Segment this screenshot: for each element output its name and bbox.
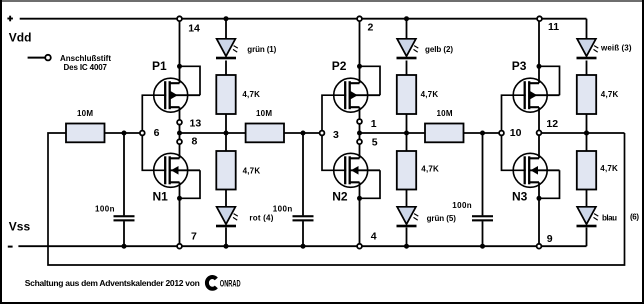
wire pin 2 rail to P2 source — [359, 19, 361, 84]
wire resistor to output node stage1 — [225, 114, 227, 133]
wire capacitor C3 to Vss rail — [482, 221, 484, 246]
svg-text:N2: N2 — [332, 190, 348, 204]
wire LED gelb (2) cathode to resistor — [406, 61, 408, 77]
junction dot rail capacitor C3 — [480, 244, 485, 249]
transistor P1 — [154, 78, 200, 112]
pin 8 of IC 4007 — [177, 136, 197, 148]
junction dot N1 source — [177, 196, 182, 201]
svg-text:4,7K: 4,7K — [600, 164, 618, 173]
wire node 3 to N2 gate — [322, 133, 346, 170]
wire node 10 tap to capacitor C3 — [482, 133, 484, 215]
wire output node stage2 to 10M R9 — [360, 132, 426, 134]
wire output node to lower resistor stage2 — [406, 133, 408, 152]
pin 1 of IC 4007 — [357, 118, 377, 130]
junction dot node 3 tap — [301, 131, 306, 136]
svg-text:100n: 100n — [452, 201, 472, 210]
resistor 4,7K upper stage1 — [216, 75, 235, 114]
svg-text:Des IC 4007: Des IC 4007 — [64, 63, 108, 72]
svg-text:N3: N3 — [512, 190, 528, 204]
transistor P3 — [513, 78, 559, 112]
wire node 6 to N1 gate — [142, 133, 166, 170]
wire pin 11 rail to P3 source — [538, 19, 540, 84]
wire LED weiß (3) cathode to resistor — [586, 61, 588, 77]
wire N1 source to pin 7 — [179, 182, 181, 246]
wire Vss bottom rail (-) — [18, 245, 586, 247]
wire LED rot (4) cathode to Vss rail — [225, 228, 227, 247]
svg-text:10M: 10M — [437, 109, 453, 118]
LED grün (1) — [216, 39, 238, 60]
junction dot output node stage3 column — [584, 131, 589, 136]
pin 13 of IC 4007 — [177, 118, 201, 130]
pin 11 of IC 4007 — [537, 16, 559, 33]
legend symbol Anschlußstift (pin of IC 4007) — [28, 55, 51, 61]
wire 10M R7 to node 6 via C1 tap — [105, 132, 143, 134]
pin 4 of IC 4007 — [357, 231, 377, 249]
pin 12 of IC 4007 — [537, 118, 559, 135]
wire node 10 to P3 gate — [502, 95, 526, 133]
Conrad logo C — [207, 277, 216, 289]
svg-text:11: 11 — [548, 21, 559, 33]
resistor 10M R8 — [246, 124, 284, 143]
svg-text:10M: 10M — [256, 109, 272, 118]
pin 6 of IC 4007 — [140, 127, 160, 139]
svg-text:blau: blau — [602, 213, 617, 222]
resistor 4,7K lower stage1 — [216, 151, 235, 190]
wire feedback loop from node 12 to 10M input — [48, 133, 625, 265]
wire N2 source-body loop — [360, 170, 381, 198]
svg-text:4: 4 — [371, 231, 377, 243]
resistor 4,7K upper stage3 — [577, 75, 596, 114]
pin 5 of IC 4007 — [357, 137, 378, 149]
junction dot node 6 tap — [122, 131, 127, 136]
junction dot N2 source — [357, 196, 362, 201]
junction dot rail bottom column 1 — [224, 244, 229, 249]
LED weiß (3) — [577, 39, 599, 60]
svg-text:weiß (3): weiß (3) — [600, 43, 632, 52]
transistor N3 — [513, 153, 559, 187]
junction dot P1 source — [177, 64, 182, 69]
wire P2 drain to N2 drain (output node) — [359, 107, 361, 158]
svg-text:1: 1 — [371, 118, 377, 130]
minus terminal label — [8, 246, 13, 248]
svg-text:Vss: Vss — [9, 220, 31, 234]
capacitor 100n C3 — [472, 215, 493, 221]
resistor 4,7K lower stage3 — [577, 151, 596, 190]
svg-text:P2: P2 — [332, 59, 347, 73]
svg-text:9: 9 — [547, 233, 553, 245]
svg-text:P3: P3 — [512, 59, 527, 73]
wire N3 source to pin 9 — [538, 182, 540, 246]
wire P1 drain to N1 drain (output node) — [179, 107, 181, 158]
svg-text:2: 2 — [368, 22, 374, 34]
svg-text:N1: N1 — [153, 190, 169, 204]
junction dot rail top column 2 — [404, 16, 409, 21]
plus terminal label — [7, 16, 12, 22]
svg-text:gelb (2): gelb (2) — [425, 45, 453, 54]
svg-text:Schaltung aus dem Adventskalen: Schaltung aus dem Adventskalender 2012 v… — [25, 278, 200, 288]
svg-text:10: 10 — [510, 127, 522, 139]
svg-text:5: 5 — [372, 137, 378, 149]
svg-text:100n: 100n — [273, 205, 293, 214]
wire Vdd rail to LED weiß (3) anode — [586, 19, 588, 40]
wire output node to lower resistor stage1 — [225, 133, 227, 152]
svg-text:10M: 10M — [77, 109, 93, 118]
wire N2 source to pin 4 — [359, 182, 361, 246]
svg-text:7: 7 — [191, 230, 197, 242]
transistor N2 — [334, 153, 380, 187]
pin 3 of IC 4007 — [320, 129, 339, 141]
junction dot rail top column 1 — [224, 16, 229, 21]
junction dot N3 source — [537, 196, 542, 201]
LED rot (4) — [216, 207, 238, 228]
svg-text:6: 6 — [154, 127, 160, 139]
wire 10M R8 to node 3 via C2 tap — [284, 132, 322, 134]
wire N1 source-body loop — [180, 170, 201, 198]
wire node 6 tap to capacitor C1 — [123, 133, 125, 215]
wire Vdd rail to LED grün (1) anode — [225, 19, 227, 40]
junction dot P3 source — [537, 64, 542, 69]
wire node 10 to N3 gate — [502, 133, 526, 170]
wire LED blau (6) cathode to Vss rail — [586, 228, 588, 247]
svg-text:rot (4): rot (4) — [249, 213, 273, 222]
svg-text:8: 8 — [192, 136, 198, 148]
wire capacitor C2 to Vss rail — [302, 221, 304, 246]
pin 9 of IC 4007 — [537, 233, 553, 249]
svg-text:13: 13 — [190, 118, 202, 130]
transistor N1 — [154, 153, 200, 187]
svg-text:4,7K: 4,7K — [242, 90, 260, 99]
wire node 3 tap to capacitor C2 — [302, 133, 304, 215]
resistor 10M R7 — [66, 124, 105, 143]
wire P2 source-body loop — [360, 66, 381, 95]
pin 14 of IC 4007 — [177, 16, 200, 34]
wire output node stage1 to 10M R8 — [180, 132, 246, 134]
capacitor 100n C2 — [293, 215, 314, 221]
wire N3 source-body loop — [539, 170, 560, 198]
wire P3 source-body loop — [539, 66, 560, 95]
svg-text:3: 3 — [333, 129, 339, 141]
junction dot output node stage2 (between 1 and 5) — [357, 131, 362, 136]
junction dot output node stage1 column — [224, 131, 229, 136]
LED gelb (2) — [397, 39, 419, 60]
wire resistor to output node stage2 — [406, 114, 408, 133]
svg-text:100n: 100n — [95, 205, 115, 214]
pin 2 of IC 4007 — [357, 16, 373, 33]
wire output node stage3 (pin 12) to feedback — [539, 132, 625, 134]
wire lower resistor to LED rot (4) anode — [225, 190, 227, 208]
junction dot output node stage2 column — [404, 131, 409, 136]
resistor 4,7K upper stage2 — [397, 75, 416, 114]
svg-text:4,7K: 4,7K — [421, 165, 439, 174]
pin 10 of IC 4007 — [499, 127, 522, 139]
svg-text:14: 14 — [188, 23, 200, 35]
junction dot rail capacitor C1 — [122, 244, 127, 249]
svg-text:4,7K: 4,7K — [601, 90, 619, 99]
junction dot P2 source — [357, 64, 362, 69]
svg-text:Vdd: Vdd — [9, 30, 32, 44]
wire Vdd top rail (+) — [20, 18, 587, 20]
svg-text:(6): (6) — [630, 213, 639, 222]
wire LED grün (1) cathode to resistor — [225, 61, 227, 77]
capacitor 100n C1 — [114, 215, 135, 221]
wire resistor to output node stage3 — [586, 114, 588, 133]
wire P3 drain to N3 drain (output node) — [538, 107, 540, 158]
svg-text:grün (5): grün (5) — [427, 214, 457, 223]
pin 7 of IC 4007 — [177, 230, 197, 248]
transistor P2 — [334, 78, 380, 112]
LED blau (6) — [577, 207, 599, 228]
wire node 3 to P2 gate — [322, 95, 346, 133]
svg-text:4,7K: 4,7K — [243, 166, 261, 175]
junction dot output row at column 3 — [584, 131, 589, 136]
LED grün (5) — [397, 207, 419, 228]
svg-text:P1: P1 — [152, 59, 167, 73]
wire node 6 to P1 gate — [142, 95, 166, 133]
junction dot rail bottom column 2 — [404, 244, 409, 249]
wire Vdd rail to LED gelb (2) anode — [406, 19, 408, 40]
svg-text:grün (1): grün (1) — [247, 45, 276, 54]
resistor 10M R9 — [425, 124, 464, 143]
wire P1 source-body loop — [180, 66, 201, 95]
junction dot node 10 tap — [480, 131, 485, 136]
wire lower resistor to LED blau (6) anode — [586, 190, 588, 208]
wire capacitor C1 to Vss rail — [123, 221, 125, 246]
wire LED grün (5) cathode to Vss rail — [406, 228, 408, 247]
junction dot output node stage1 (between 13 and 8) — [177, 131, 182, 136]
wire pin 14 rail to P1 source — [179, 19, 181, 84]
resistor 4,7K lower stage2 — [397, 151, 416, 190]
svg-text:12: 12 — [546, 118, 558, 130]
wire lower resistor to LED grün (5) anode — [406, 190, 408, 208]
svg-text:4,7K: 4,7K — [421, 90, 439, 99]
wire 10M R9 to node 10 via C3 tap — [464, 132, 502, 134]
junction dot rail capacitor C2 — [301, 244, 306, 249]
wire output node to lower resistor stage3 — [586, 133, 588, 152]
svg-text:ONRAD: ONRAD — [220, 279, 241, 289]
